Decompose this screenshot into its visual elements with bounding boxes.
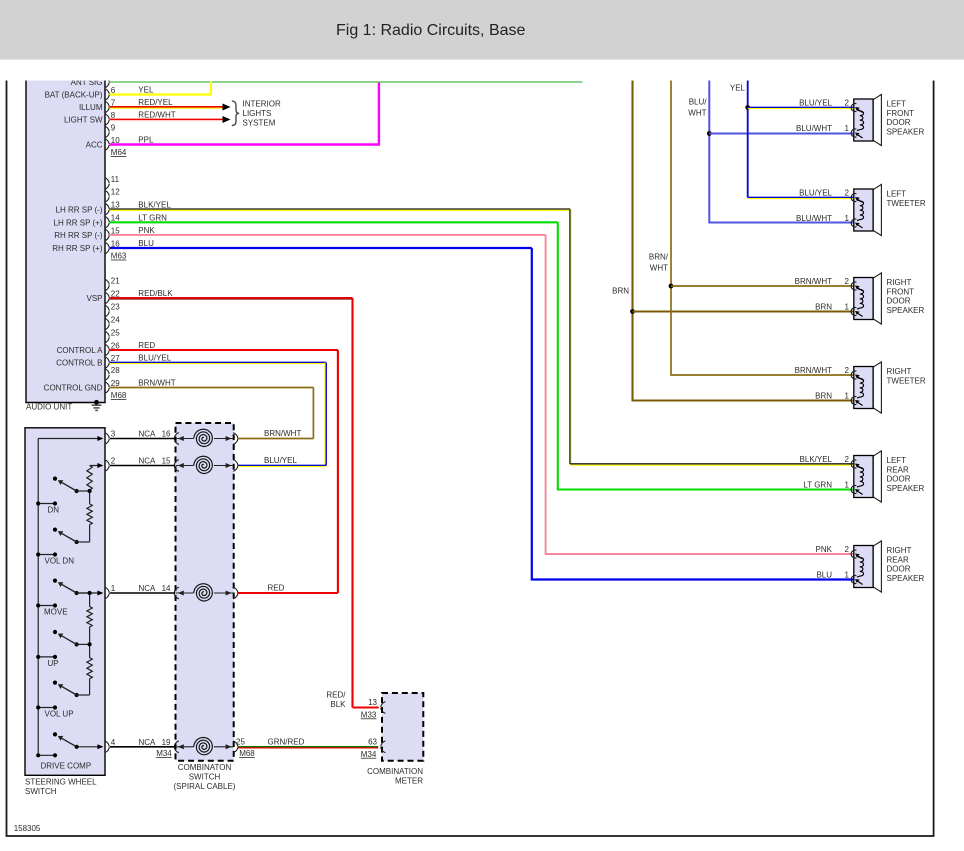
speaker LEFT LEFT REAR DOOR SPEAKER bbox=[851, 451, 881, 502]
svg-text:REAR: REAR bbox=[887, 555, 909, 564]
frame right border bbox=[933, 80, 935, 836]
svg-text:RED: RED bbox=[268, 583, 285, 592]
junction dot BLU/WHT bbox=[707, 131, 712, 136]
audio unit pin 25 bbox=[105, 331, 110, 343]
svg-text:RIGHT: RIGHT bbox=[887, 367, 912, 376]
svg-text:WHT: WHT bbox=[650, 263, 668, 272]
wire BRN vertical bbox=[633, 80, 854, 401]
svg-text:63: 63 bbox=[368, 737, 377, 746]
svg-text:24: 24 bbox=[111, 315, 120, 324]
svg-text:RIGHT: RIGHT bbox=[887, 278, 912, 287]
svg-text:NCA: NCA bbox=[139, 584, 157, 593]
audio unit U1 block bbox=[26, 74, 105, 403]
interior lights brace bbox=[232, 101, 239, 126]
audio unit pin 9 bbox=[105, 126, 110, 138]
svg-text:M34: M34 bbox=[156, 749, 172, 758]
svg-text:CONTROL B: CONTROL B bbox=[56, 359, 102, 368]
svg-text:SWITCH: SWITCH bbox=[25, 787, 57, 796]
wire RED vertical to spiral cable pin 34 bbox=[337, 350, 339, 593]
resistor R1 bbox=[87, 466, 92, 491]
svg-text:ILLUM: ILLUM bbox=[79, 103, 103, 112]
svg-text:SYSTEM: SYSTEM bbox=[243, 119, 276, 128]
combination meter block bbox=[382, 693, 423, 761]
wire pin 2 row bbox=[90, 465, 102, 467]
svg-text:BLK/YEL: BLK/YEL bbox=[800, 455, 833, 464]
svg-text:23: 23 bbox=[111, 302, 120, 311]
svg-text:AUDIO UNIT: AUDIO UNIT bbox=[26, 403, 72, 412]
speaker RIGHT RIGHT TWEETER bbox=[851, 362, 881, 413]
svg-text:DOOR: DOOR bbox=[887, 118, 911, 127]
wire BLU/YEL pin 27 bbox=[110, 362, 327, 364]
svg-text:LH RR SP (-): LH RR SP (-) bbox=[56, 205, 103, 214]
svg-text:VOL DN: VOL DN bbox=[45, 557, 75, 566]
svg-text:UP: UP bbox=[48, 659, 59, 668]
svg-text:FRONT: FRONT bbox=[887, 287, 915, 296]
svg-text:LH RR SP (+): LH RR SP (+) bbox=[54, 218, 103, 227]
wire NCA pin 1 bbox=[110, 592, 176, 594]
wire BLU/YEL (YEL) vertical bbox=[747, 80, 749, 198]
audio unit pin 12 bbox=[105, 190, 110, 202]
svg-text:1: 1 bbox=[845, 124, 850, 133]
wire BLK/YEL vertical to left rear speaker bbox=[569, 209, 571, 464]
svg-text:SPEAKER: SPEAKER bbox=[887, 127, 925, 136]
svg-text:2: 2 bbox=[111, 457, 116, 466]
frame left border bbox=[6, 80, 8, 836]
wire BRN/WHT to right front door speaker pin 2 bbox=[671, 285, 854, 287]
spiral symbol at y=746.8 bbox=[194, 737, 214, 757]
svg-text:RH RR SP (+): RH RR SP (+) bbox=[52, 244, 103, 253]
svg-text:M68: M68 bbox=[239, 749, 255, 758]
svg-text:BLU: BLU bbox=[138, 239, 154, 248]
wire NCA pin 4 bbox=[110, 746, 176, 748]
spiral symbol at y=465.5 bbox=[194, 455, 214, 475]
svg-text:TWEETER: TWEETER bbox=[887, 199, 926, 208]
svg-text:2: 2 bbox=[845, 98, 850, 107]
wire YEL pin 6 bbox=[110, 82, 211, 95]
svg-text:BLU/WHT: BLU/WHT bbox=[796, 214, 832, 223]
resistor R3 bbox=[89, 593, 91, 607]
bus stub DN bbox=[38, 503, 55, 505]
svg-text:1: 1 bbox=[845, 391, 850, 400]
wire LT GRN vertical to left rear speaker bbox=[558, 222, 854, 489]
svg-text:3: 3 bbox=[111, 430, 116, 439]
svg-text:RED: RED bbox=[138, 341, 155, 350]
svg-text:RED/BLK: RED/BLK bbox=[138, 289, 173, 298]
meter pin 63 bbox=[381, 741, 386, 753]
svg-text:RED/YEL: RED/YEL bbox=[138, 98, 173, 107]
svg-text:14: 14 bbox=[162, 584, 171, 593]
wire ANT SIG green pin 5 bbox=[110, 81, 583, 83]
wire RED pin 26 bbox=[110, 349, 338, 351]
wire RED/BLK vertical to combination meter bbox=[351, 298, 353, 708]
svg-text:8: 8 bbox=[111, 111, 116, 120]
svg-text:13: 13 bbox=[368, 698, 377, 707]
svg-text:BRN: BRN bbox=[815, 302, 832, 311]
bus stub MOVE bbox=[38, 605, 55, 607]
svg-text:M64: M64 bbox=[111, 148, 127, 157]
svg-text:BLK: BLK bbox=[330, 700, 346, 709]
audio unit pin 13 bbox=[105, 203, 110, 215]
svg-text:16: 16 bbox=[162, 430, 171, 439]
svg-text:29: 29 bbox=[111, 379, 120, 388]
svg-text:M63: M63 bbox=[111, 252, 127, 261]
svg-text:COMBINATON: COMBINATON bbox=[178, 763, 232, 772]
audio unit pin 10 bbox=[105, 139, 110, 151]
svg-text:M33: M33 bbox=[361, 710, 377, 719]
junction dot BRN bbox=[630, 309, 635, 314]
bus stub DRIVE COMP bbox=[38, 754, 55, 756]
wire GRN/RED pin 25 to meter pin 63 bbox=[238, 746, 379, 748]
svg-text:YEL: YEL bbox=[730, 83, 746, 92]
steering pin 2 bracket bbox=[105, 460, 110, 472]
svg-text:NCA: NCA bbox=[139, 738, 157, 747]
svg-text:TWEETER: TWEETER bbox=[887, 376, 926, 385]
wire BRN to right front door speaker pin 1 bbox=[633, 310, 854, 312]
speaker RIGHT RIGHT REAR DOOR SPEAKER bbox=[851, 541, 881, 592]
svg-text:BRN/WHT: BRN/WHT bbox=[795, 366, 832, 375]
svg-text:BAT (BACK-UP): BAT (BACK-UP) bbox=[45, 91, 103, 100]
junction dot BRN/WHT bbox=[669, 284, 674, 289]
wire pin 4 row bbox=[76, 746, 102, 748]
switch DN bbox=[75, 489, 79, 493]
switch VOL DN bbox=[75, 540, 79, 544]
svg-text:REAR: REAR bbox=[887, 465, 909, 474]
audio unit pin 8 bbox=[105, 114, 110, 126]
svg-text:LIGHT SW: LIGHT SW bbox=[64, 116, 103, 125]
white clip cover above diagram bbox=[0, 60, 964, 81]
svg-text:25: 25 bbox=[236, 737, 245, 746]
svg-text:2: 2 bbox=[845, 545, 850, 554]
svg-text:LEFT: LEFT bbox=[887, 190, 907, 199]
audio unit ground G1 bbox=[92, 405, 102, 410]
svg-text:BRN/WHT: BRN/WHT bbox=[795, 277, 832, 286]
svg-text:PNK: PNK bbox=[816, 545, 833, 554]
svg-text:WHT: WHT bbox=[688, 108, 706, 117]
svg-text:INTERIOR: INTERIOR bbox=[243, 100, 281, 109]
audio unit pin 6 bbox=[105, 89, 110, 101]
svg-text:158305: 158305 bbox=[14, 824, 41, 833]
svg-text:SPEAKER: SPEAKER bbox=[887, 306, 925, 315]
svg-text:DRIVE COMP: DRIVE COMP bbox=[41, 761, 92, 770]
audio unit pin 16 bbox=[105, 242, 110, 254]
audio unit pin 5 bbox=[105, 76, 110, 88]
header bar bbox=[0, 0, 964, 60]
speaker RIGHT RIGHT FRONT DOOR SPEAKER bbox=[851, 273, 881, 324]
spiral cable feed-through at y=465.5 bbox=[174, 460, 179, 472]
svg-text:1: 1 bbox=[845, 214, 850, 223]
steering pin 4 bracket bbox=[105, 741, 110, 753]
speaker LEFT LEFT FRONT DOOR SPEAKER bbox=[851, 94, 881, 145]
bus stub VOL UP bbox=[38, 707, 55, 709]
wire NCA pin 2 bbox=[110, 465, 176, 467]
svg-text:DN: DN bbox=[48, 506, 60, 515]
svg-text:BLU/YEL: BLU/YEL bbox=[799, 98, 832, 107]
junction dot BLU/YEL bbox=[745, 105, 750, 110]
svg-text:2: 2 bbox=[845, 277, 850, 286]
spiral cable feed-through at y=746.8 bbox=[174, 741, 179, 753]
wire RED/BLK pin 22 bbox=[110, 297, 353, 299]
svg-text:1: 1 bbox=[845, 480, 850, 489]
svg-text:2: 2 bbox=[845, 366, 850, 375]
svg-text:1: 1 bbox=[845, 570, 850, 579]
svg-text:BLU/: BLU/ bbox=[689, 97, 708, 106]
spiral cable feed-through at y=593 bbox=[174, 587, 179, 599]
audio unit pin 29 bbox=[105, 382, 110, 394]
combination switch spiral cable block bbox=[176, 423, 234, 761]
svg-text:YEL: YEL bbox=[138, 86, 154, 95]
wire BLK/YEL pin 13 bbox=[110, 208, 570, 210]
svg-text:19: 19 bbox=[162, 738, 171, 747]
wire pin 3 row bbox=[38, 438, 102, 440]
svg-text:M34: M34 bbox=[361, 750, 377, 759]
svg-text:COMBINATION: COMBINATION bbox=[367, 767, 423, 776]
svg-text:BLK/YEL: BLK/YEL bbox=[138, 200, 171, 209]
svg-text:15: 15 bbox=[162, 457, 171, 466]
spiral symbol at y=438.5 bbox=[194, 428, 214, 448]
steering pin 1 bracket bbox=[105, 587, 110, 599]
svg-text:RED/WHT: RED/WHT bbox=[138, 111, 175, 120]
audio unit pin 23 bbox=[105, 305, 110, 317]
svg-text:CONTROL A: CONTROL A bbox=[57, 346, 104, 355]
svg-text:27: 27 bbox=[111, 354, 120, 363]
audio unit pin 11 bbox=[105, 178, 110, 190]
svg-text:BRN/WHT: BRN/WHT bbox=[138, 379, 175, 388]
interior lights arrow pin 8 bbox=[223, 116, 231, 123]
wire PNK vertical to right rear speaker bbox=[546, 235, 854, 554]
svg-text:DOOR: DOOR bbox=[887, 565, 911, 574]
spiral cable feed-through at y=438.5 bbox=[174, 433, 179, 445]
wire RED/YEL pin 7 bbox=[110, 106, 224, 108]
svg-text:BLU/YEL: BLU/YEL bbox=[138, 354, 171, 363]
switch VOL UP bbox=[75, 693, 79, 697]
switch DRIVE COMP bbox=[75, 745, 79, 749]
wire BLU pin 16 bbox=[110, 247, 532, 249]
svg-text:9: 9 bbox=[111, 123, 116, 132]
svg-text:1: 1 bbox=[111, 584, 116, 593]
svg-text:METER: METER bbox=[395, 776, 423, 785]
frame bottom border bbox=[6, 835, 935, 837]
wire RED/WHT pin 8 bbox=[110, 119, 224, 121]
svg-text:BLU: BLU bbox=[816, 570, 832, 579]
svg-text:PNK: PNK bbox=[138, 226, 155, 235]
audio unit pin 24 bbox=[105, 318, 110, 330]
wire BRN/WHT vertical bbox=[671, 80, 854, 375]
svg-text:FRONT: FRONT bbox=[887, 109, 915, 118]
audio unit pin 7 bbox=[105, 101, 110, 113]
wire pin 1 row bbox=[77, 592, 103, 594]
svg-text:BLU/YEL: BLU/YEL bbox=[264, 456, 297, 465]
svg-text:RH RR SP (-): RH RR SP (-) bbox=[54, 231, 103, 240]
svg-text:RED/: RED/ bbox=[326, 690, 346, 699]
wire NCA pin 3 bbox=[110, 438, 176, 440]
svg-text:MOVE: MOVE bbox=[44, 608, 68, 617]
audio unit pin 22 bbox=[105, 292, 110, 304]
audio unit pin 27 bbox=[105, 357, 110, 369]
svg-text:M68: M68 bbox=[111, 391, 127, 400]
svg-text:LEFT: LEFT bbox=[887, 100, 907, 109]
svg-text:11: 11 bbox=[111, 175, 120, 184]
svg-text:VOL UP: VOL UP bbox=[45, 710, 74, 719]
switch UP bbox=[75, 642, 79, 646]
steering wheel switch block bbox=[25, 428, 105, 776]
wire BLU/WHT to left front door speaker pin 1 bbox=[709, 133, 854, 135]
svg-text:SPEAKER: SPEAKER bbox=[887, 484, 925, 493]
audio unit pin 15 bbox=[105, 229, 110, 241]
svg-text:NCA: NCA bbox=[139, 430, 157, 439]
resistor R2 bbox=[89, 490, 91, 504]
audio unit pin 26 bbox=[105, 344, 110, 356]
svg-text:RIGHT: RIGHT bbox=[887, 546, 912, 555]
svg-text:(SPIRAL CABLE): (SPIRAL CABLE) bbox=[174, 782, 236, 791]
svg-text:LIGHTS: LIGHTS bbox=[243, 109, 272, 118]
bus wire left vertical bbox=[37, 439, 39, 756]
audio unit pin 14 bbox=[105, 216, 110, 228]
svg-text:GRN/RED: GRN/RED bbox=[268, 737, 305, 746]
audio unit pin 28 bbox=[105, 369, 110, 381]
svg-text:VSP: VSP bbox=[86, 294, 102, 303]
svg-text:12: 12 bbox=[111, 188, 120, 197]
svg-text:BLU/WHT: BLU/WHT bbox=[796, 124, 832, 133]
wire BRN/WHT pin 29 bbox=[110, 387, 314, 389]
svg-text:21: 21 bbox=[111, 276, 120, 285]
wire PNK pin 15 bbox=[110, 234, 546, 236]
interior lights arrow pin 7 bbox=[223, 104, 231, 111]
svg-text:DOOR: DOOR bbox=[887, 297, 911, 306]
svg-text:BLU/YEL: BLU/YEL bbox=[799, 188, 832, 197]
wire BLU/YEL to left front door speaker pin 2 bbox=[748, 107, 854, 109]
svg-text:2: 2 bbox=[845, 455, 850, 464]
svg-text:1: 1 bbox=[845, 302, 850, 311]
svg-text:SPEAKER: SPEAKER bbox=[887, 574, 925, 583]
svg-text:BRN/WHT: BRN/WHT bbox=[264, 429, 301, 438]
svg-text:4: 4 bbox=[111, 738, 116, 747]
svg-text:Fig 1: Radio Circuits, Base: Fig 1: Radio Circuits, Base bbox=[336, 22, 526, 39]
spiral symbol at y=593 bbox=[194, 583, 214, 603]
svg-text:DOOR: DOOR bbox=[887, 475, 911, 484]
steering pin 3 bracket bbox=[105, 433, 110, 445]
wire PPL pin 10 bbox=[110, 83, 379, 145]
svg-text:BRN/: BRN/ bbox=[649, 252, 669, 261]
switch MOVE bbox=[75, 591, 79, 595]
speaker LEFT LEFT TWEETER bbox=[851, 184, 881, 235]
wire BRN/WHT vertical to spiral cable pin 32 bbox=[312, 388, 314, 439]
audio unit pin 21 bbox=[105, 279, 110, 291]
svg-text:25: 25 bbox=[111, 328, 120, 337]
svg-text:ACC: ACC bbox=[86, 141, 103, 150]
svg-text:BRN: BRN bbox=[815, 391, 832, 400]
svg-text:BRN: BRN bbox=[612, 286, 629, 295]
wire BLU vertical to right rear speaker bbox=[532, 248, 854, 580]
resistor R4 bbox=[89, 644, 91, 657]
wire BLU/WHT vertical bbox=[709, 80, 854, 223]
svg-text:LT GRN: LT GRN bbox=[138, 214, 167, 223]
wire BLU/YEL vertical to spiral cable pin 33 bbox=[325, 363, 327, 466]
svg-text:28: 28 bbox=[111, 366, 120, 375]
bus stub VOL DN bbox=[38, 554, 55, 556]
svg-text:NCA: NCA bbox=[139, 457, 157, 466]
wire LT GRN pin 14 bbox=[110, 221, 558, 223]
svg-text:SWITCH: SWITCH bbox=[189, 772, 221, 781]
svg-text:LT GRN: LT GRN bbox=[803, 480, 832, 489]
meter pin 13 bbox=[381, 702, 386, 714]
svg-text:STEERING WHEEL: STEERING WHEEL bbox=[25, 777, 97, 786]
svg-text:CONTROL GND: CONTROL GND bbox=[44, 384, 103, 393]
svg-text:2: 2 bbox=[845, 188, 850, 197]
bus stub UP bbox=[38, 656, 55, 658]
svg-text:LEFT: LEFT bbox=[887, 456, 907, 465]
